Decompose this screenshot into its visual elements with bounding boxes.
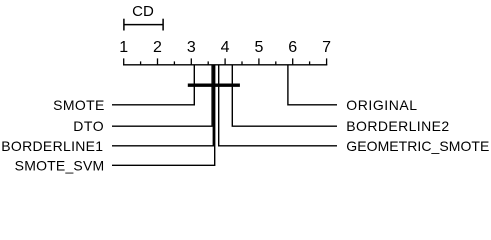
svg-text:BORDERLINE2: BORDERLINE2 <box>346 118 449 134</box>
svg-text:GEOMETRIC_SMOTE: GEOMETRIC_SMOTE <box>346 138 489 154</box>
svg-text:2: 2 <box>153 39 162 56</box>
svg-text:7: 7 <box>322 39 331 56</box>
svg-text:SMOTE: SMOTE <box>53 97 105 113</box>
svg-text:CD: CD <box>132 3 154 20</box>
svg-text:5: 5 <box>254 39 263 56</box>
svg-text:SMOTE_SVM: SMOTE_SVM <box>15 157 105 173</box>
svg-text:4: 4 <box>221 39 230 56</box>
svg-text:6: 6 <box>288 39 297 56</box>
svg-text:BORDERLINE1: BORDERLINE1 <box>1 138 103 154</box>
svg-text:ORIGINAL: ORIGINAL <box>346 97 417 113</box>
svg-text:DTO: DTO <box>73 118 104 134</box>
svg-text:3: 3 <box>187 39 196 56</box>
svg-text:1: 1 <box>119 39 128 56</box>
